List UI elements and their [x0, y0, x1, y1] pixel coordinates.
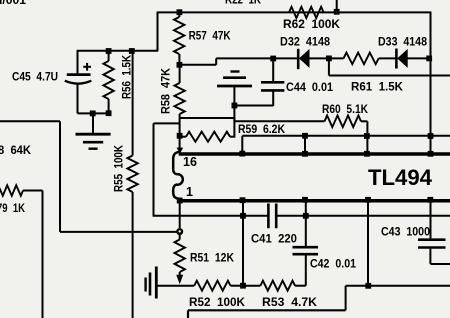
wire y=51 to C45 — [77, 50, 158, 52]
wire C45 to R56 bottom y=113.4 — [78, 112, 109, 114]
wire D32 to R61 — [309, 57, 344, 59]
resistor R61 — [344, 53, 379, 65]
wire y=215.8 right part with C41 — [276, 215, 450, 217]
svg-text:8 64K: 8 64K — [0, 145, 32, 157]
node junction C44-branch x=329 — [326, 56, 332, 62]
node junction bus/diode rail — [426, 56, 432, 62]
svg-text:R60 5.1K: R60 5.1K — [322, 104, 369, 116]
wire top-left corner down — [157, 12, 159, 52]
wire pin stub x=243 below IC — [242, 202, 244, 286]
wire bus below IC — [430, 199, 432, 240]
svg-text:R57 47K: R57 47K — [189, 30, 232, 42]
pin 16 entry arrow — [177, 148, 184, 154]
wire left loop vertical x=153.5 — [153, 123, 155, 215]
svg-text:R51 12K: R51 12K — [190, 253, 235, 265]
svg-text:D33 4148: D33 4148 — [378, 37, 428, 49]
wire pin stubs above IC — [304, 136, 306, 153]
ground under C45 — [92, 113, 94, 134]
wire right bus x=430.5 — [430, 12, 432, 156]
node junction gnd/C44 y=105.5 — [232, 103, 238, 109]
wire y=285.8 right rail — [346, 285, 450, 287]
svg-text:R62 100K: R62 100K — [283, 19, 341, 31]
svg-text:I/001: I/001 — [0, 0, 27, 7]
capacitor C45 (electrolytic) — [77, 51, 79, 74]
capacitor C41 — [267, 204, 270, 229]
capacitor C43 — [418, 238, 446, 241]
resistor R60 — [325, 116, 362, 128]
wire R58 tee to hub — [180, 117, 236, 119]
svg-text:TL494: TL494 — [368, 165, 432, 190]
svg-text:D32 4148: D32 4148 — [280, 37, 331, 49]
node junction R57/R58 — [177, 62, 183, 68]
wire top rail y=12 — [158, 11, 432, 13]
svg-text:1: 1 — [186, 185, 193, 199]
wire y=105.5 to C44 bottom — [234, 105, 273, 107]
IC TL494 top edge — [179, 152, 450, 156]
wire left corner to R58 — [154, 122, 181, 124]
svg-text:C43 1000: C43 1000 — [381, 227, 430, 239]
svg-text:R22 1K: R22 1K — [225, 0, 262, 6]
svg-text:R58 47K: R58 47K — [159, 68, 173, 114]
wire y=215.8 left part — [153, 215, 269, 217]
pin brace 16..1 — [173, 152, 183, 199]
wire jog to diode rail — [179, 64, 217, 66]
ground (rotated) left of R51 — [144, 278, 146, 292]
wire pin stub x=368 below IC — [367, 202, 369, 286]
svg-text:R52 100K: R52 100K — [189, 297, 246, 309]
wire gnd rail y=285.7 — [156, 285, 194, 287]
svg-text:R61 1.5K: R61 1.5K — [351, 82, 404, 94]
wire D33 to bus — [408, 57, 432, 59]
wire y=136 mid rail — [242, 135, 450, 137]
wire R61 to D33 — [379, 57, 396, 59]
resistor R52 — [194, 281, 230, 291]
resistor R56 — [106, 48, 112, 54]
wire branch down from 329 — [328, 58, 330, 75]
resistor R62 — [289, 7, 324, 18]
ground (inverted) above node — [231, 70, 240, 72]
node junction R57 top — [177, 9, 183, 15]
wire pin stub x=305.8 below IC — [305, 202, 307, 246]
resistor R59 — [177, 133, 183, 139]
svg-text:C44 0.01: C44 0.01 — [286, 82, 334, 94]
svg-text:C41 220: C41 220 — [251, 234, 297, 246]
capacitor C44 — [270, 56, 276, 62]
wire diode rail y=58.4 — [216, 57, 298, 59]
resistor R51 — [179, 235, 181, 240]
svg-text:R53 4.7K: R53 4.7K — [262, 297, 318, 309]
capacitor C42 — [293, 246, 319, 249]
svg-text:C45 4.7U: C45 4.7U — [12, 70, 58, 84]
node junction R52/R53 — [240, 283, 246, 289]
resistor R79 (cut at left edge) — [0, 185, 23, 195]
resistor R58 — [179, 65, 181, 83]
resistor R57 — [178, 12, 180, 17]
svg-text:R59 6.2K: R59 6.2K — [238, 124, 286, 136]
resistor R55 — [129, 48, 135, 54]
svg-text:R55 100K: R55 100K — [112, 145, 126, 192]
IC TL494 bottom edge — [179, 199, 450, 203]
node connector circle — [176, 228, 183, 235]
wire R22 stub up — [336, 0, 338, 12]
wire R60 right corner down — [361, 120, 367, 122]
svg-text:C42 0.01: C42 0.01 — [310, 259, 357, 271]
diode D32 — [297, 49, 300, 69]
node junction gnd stem — [90, 111, 96, 117]
node junction R22 branch — [334, 9, 340, 15]
svg-text:R56 1.5K: R56 1.5K — [120, 55, 134, 99]
wire y=75.5 to right edge — [329, 75, 450, 77]
diode D33 — [395, 49, 398, 69]
wire left feed: y=121 from edge — [0, 120, 60, 122]
resistor R53 — [243, 285, 260, 287]
svg-text:79 1K: 79 1K — [0, 203, 26, 215]
wire step down to bottom edge — [345, 286, 347, 311]
wire hub to R60 — [234, 120, 324, 122]
wire pin1 down — [179, 202, 181, 228]
svg-text:16: 16 — [183, 155, 197, 169]
